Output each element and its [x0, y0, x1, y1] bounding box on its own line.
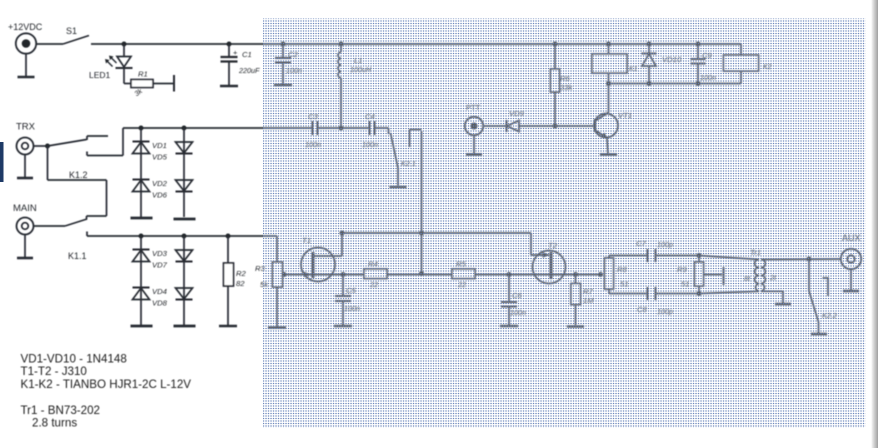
- svg-text:2.8 turns: 2.8 turns: [32, 417, 77, 430]
- svg-text:VD1: VD1: [152, 141, 167, 150]
- svg-text:LED1: LED1: [89, 70, 111, 80]
- svg-text:R1: R1: [138, 70, 148, 79]
- svg-text:TRX: TRX: [16, 122, 36, 133]
- svg-text:VD5: VD5: [152, 153, 168, 162]
- svg-text:K1.2: K1.2: [69, 170, 88, 180]
- svg-text:VD3: VD3: [152, 249, 168, 258]
- svg-text:VD1-VD10 - 1N4148: VD1-VD10 - 1N4148: [21, 353, 127, 366]
- svg-text:R2: R2: [236, 269, 247, 278]
- svg-text:K1-K2 - TIANBO HJR1-2C L-12V: K1-K2 - TIANBO HJR1-2C L-12V: [21, 378, 192, 391]
- svg-text:220uF: 220uF: [238, 66, 260, 75]
- svg-text:+: +: [233, 48, 238, 57]
- svg-text:VD2: VD2: [152, 179, 168, 188]
- svg-text:VD6: VD6: [152, 191, 168, 200]
- svg-text:VD8: VD8: [152, 299, 168, 308]
- svg-text:MAIN: MAIN: [13, 203, 37, 214]
- svg-text:C1: C1: [242, 50, 252, 59]
- svg-text:+12VDC: +12VDC: [8, 22, 43, 32]
- svg-text:S1: S1: [66, 26, 77, 36]
- svg-text:VD4: VD4: [152, 287, 167, 296]
- svg-text:K1.1: K1.1: [68, 251, 87, 261]
- svg-text:82: 82: [236, 279, 245, 288]
- svg-text:VD7: VD7: [152, 261, 168, 270]
- svg-text:T1-T2 - J310: T1-T2 - J310: [21, 365, 87, 378]
- svg-text:Tr1 - BN73-202: Tr1 - BN73-202: [21, 404, 100, 417]
